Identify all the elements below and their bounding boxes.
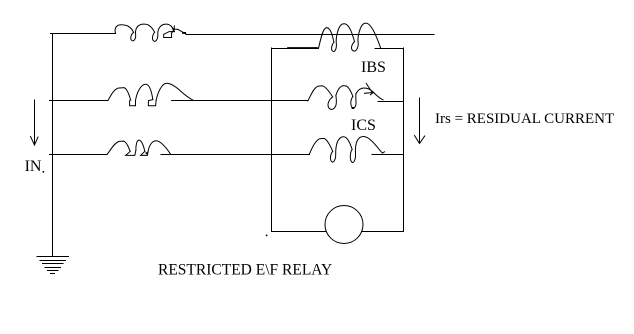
relay box top edge overdrawn thick part xyxy=(288,47,317,49)
wire: phase line 1 left segment xyxy=(51,33,116,35)
CT coil L3 (bottom phase) xyxy=(107,140,171,155)
wire: phase line 2 left segment xyxy=(50,100,109,102)
wire: phase line 2 right stub xyxy=(378,101,404,103)
relay box top edge left part xyxy=(272,48,319,50)
wire: phase line 3 mid segment xyxy=(161,154,310,156)
arrow Irs (residual current) xyxy=(415,98,425,144)
wire: phase line 3 left segment xyxy=(50,154,108,156)
relay coil IBS xyxy=(308,83,383,109)
relay box bottom edge right part xyxy=(362,231,404,233)
wire: main left vertical bus xyxy=(52,34,54,257)
svg-text:RESTRICTED E\F RELAY: RESTRICTED E\F RELAY xyxy=(158,262,332,279)
relay operating coil (circle) xyxy=(325,206,363,244)
wire: phase line 3 right stub xyxy=(372,154,404,156)
CT coil L1 (top phase) xyxy=(115,24,186,41)
svg-text:IN: IN xyxy=(25,158,42,175)
stray dot at box bottom left xyxy=(266,235,268,237)
CT coil secondary (top, on relay box) xyxy=(319,23,381,51)
relay box top edge right part xyxy=(375,48,404,50)
svg-text:Irs = RESIDUAL CURRENT: Irs = RESIDUAL CURRENT xyxy=(435,111,614,127)
svg-text:ICS: ICS xyxy=(351,117,376,134)
ground xyxy=(37,257,69,274)
relay box bottom edge left part xyxy=(272,231,327,233)
CT coil L2 (middle phase) xyxy=(108,83,193,106)
relay box right edge xyxy=(403,48,405,232)
relay coil ICS xyxy=(310,137,385,163)
relay box left edge xyxy=(271,48,273,232)
svg-text:IBS: IBS xyxy=(361,59,386,76)
wire: phase line 2 mid segment xyxy=(172,100,308,102)
wire: phase line 1 right segment xyxy=(186,34,434,36)
arrow IN (neutral current) xyxy=(31,100,39,145)
